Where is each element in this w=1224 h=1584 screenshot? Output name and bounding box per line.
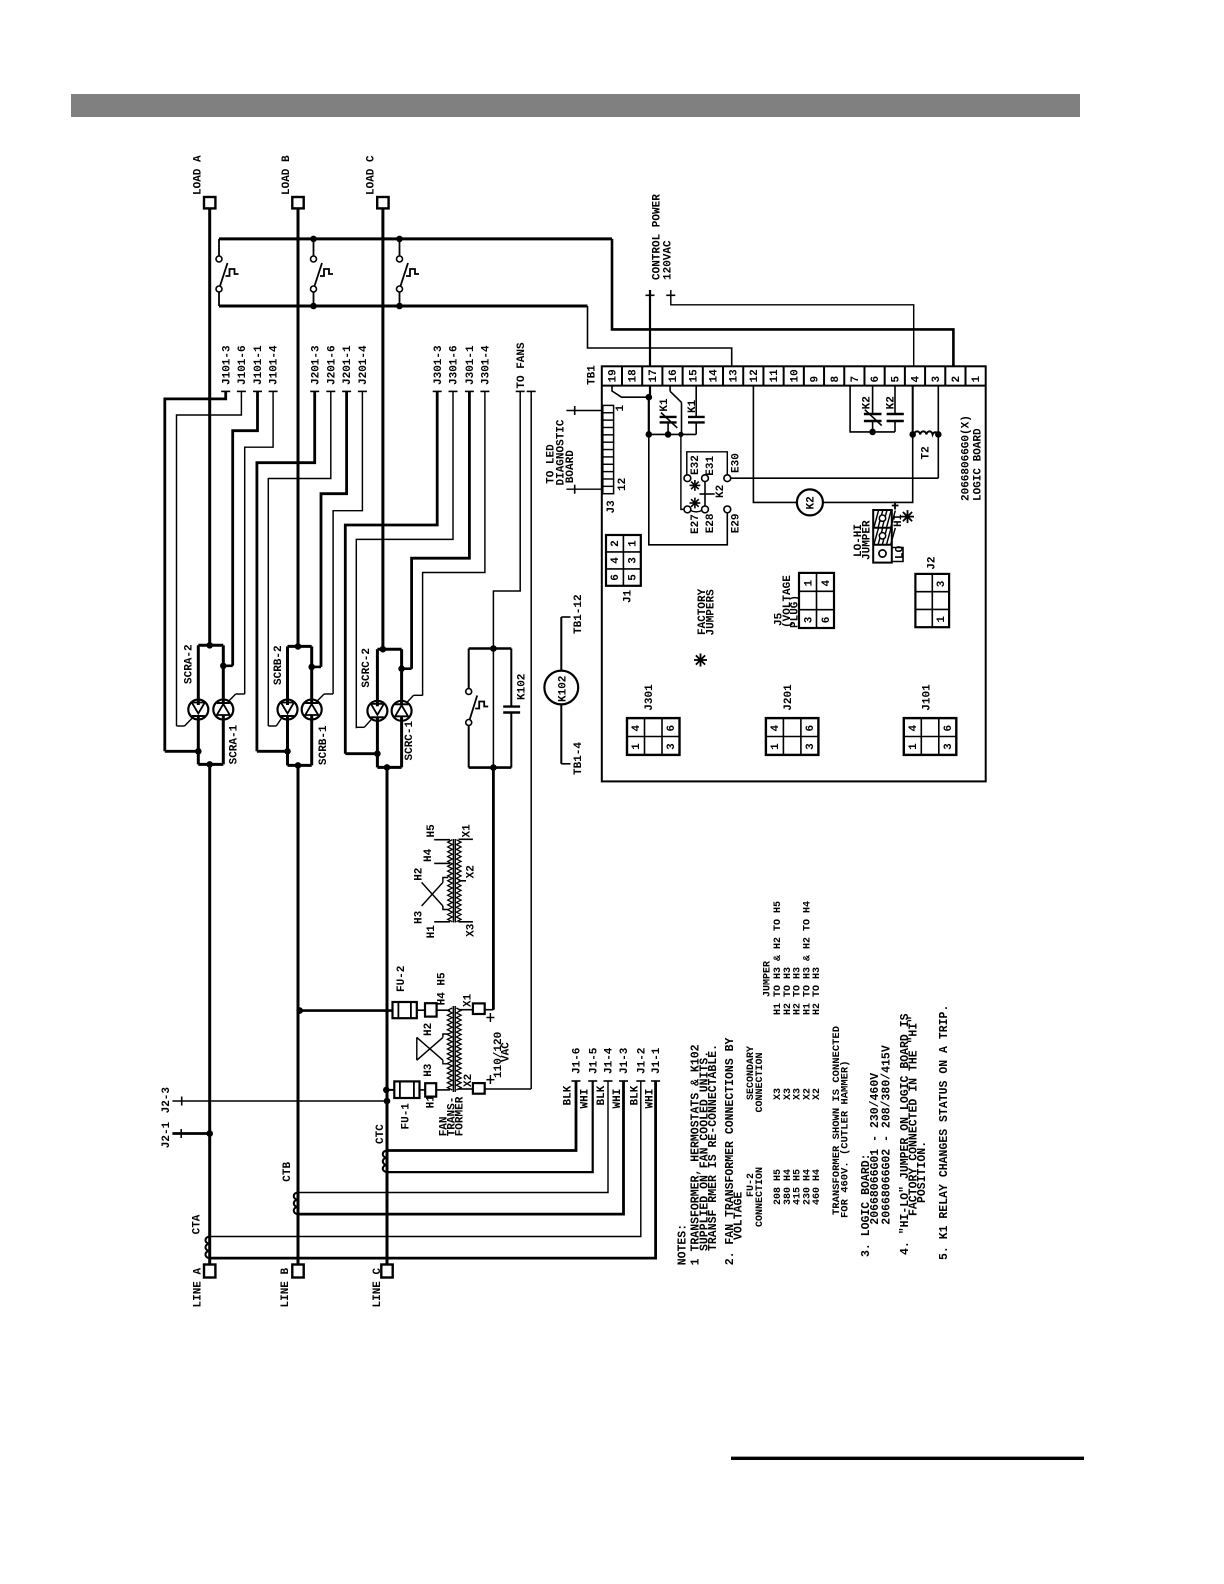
tap H5 upper xyxy=(434,839,450,841)
node SCRC anode junction xyxy=(380,646,387,653)
inductor T2 xyxy=(914,431,938,434)
svg-text:VAC: VAC xyxy=(501,1042,513,1062)
fan transformer core xyxy=(452,1006,454,1092)
svg-text:J301-3: J301-3 xyxy=(433,345,445,385)
svg-text:J1-1: J1-1 xyxy=(651,1047,663,1074)
wire J301-1 xyxy=(465,390,474,392)
svg-text:X3: X3 xyxy=(466,923,478,937)
wire phase B to FU-2 xyxy=(300,1009,393,1012)
terminal LINE A xyxy=(204,1265,215,1278)
svg-text:PLUG): PLUG) xyxy=(790,595,802,628)
svg-text:WHI: WHI xyxy=(645,1089,657,1109)
svg-text:E28: E28 xyxy=(705,513,717,533)
connector J5 voltage plug xyxy=(799,573,834,628)
label 110/120 VAC xyxy=(489,1013,491,1022)
fan transformer primary winding xyxy=(447,1008,452,1090)
fan transformer secondary winding xyxy=(456,1008,461,1090)
connector J3 xyxy=(603,405,614,493)
svg-text:J1-5: J1-5 xyxy=(588,1047,600,1074)
wire X2 to fans xyxy=(485,1088,532,1090)
svg-text:FU-2: FU-2 xyxy=(396,966,408,992)
svg-text:JUMPERS: JUMPERS xyxy=(706,589,718,636)
wire top bus to TB1-2 xyxy=(612,239,953,366)
svg-text:CONNECTION: CONNECTION xyxy=(755,1052,766,1112)
tap X2 upper xyxy=(459,880,467,882)
thermostat switch TH3 xyxy=(399,239,401,256)
svg-text:TB1-12: TB1-12 xyxy=(573,594,585,634)
svg-text:5: 5 xyxy=(890,376,902,383)
svg-text:JUMPER: JUMPER xyxy=(763,961,774,997)
svg-text:J101-3: J101-3 xyxy=(221,345,233,385)
svg-text:4: 4 xyxy=(610,557,622,564)
svg-text:13: 13 xyxy=(729,369,741,383)
label J1-3 xyxy=(619,1080,628,1082)
capacitor contact K2 xyxy=(894,386,896,414)
terminal LOAD C xyxy=(377,197,388,208)
wire SCRA bottom bus xyxy=(197,751,200,764)
svg-text:J201-4: J201-4 xyxy=(358,345,370,385)
wire J101-3 xyxy=(221,390,230,392)
node K1 mid xyxy=(646,431,653,438)
thermostat switch TH1 xyxy=(218,239,220,256)
connector J101 xyxy=(904,718,957,755)
thermostat switch TH2 xyxy=(313,239,315,256)
svg-text:4: 4 xyxy=(770,725,782,732)
svg-text:FORMER: FORMER xyxy=(454,1096,466,1136)
node E32 xyxy=(684,475,691,482)
thermostat contact of K102 xyxy=(468,649,470,689)
svg-text:E32: E32 xyxy=(690,455,702,475)
wire LOAD B main line xyxy=(297,208,300,646)
svg-text:CONNECTION: CONNECTION xyxy=(755,1167,766,1227)
wire CTA BLK to J1-2 xyxy=(210,1081,641,1237)
node K1 top xyxy=(646,394,653,401)
svg-text:SCRC-2: SCRC-2 xyxy=(361,648,373,688)
upper transformer secondary winding xyxy=(456,840,461,922)
tap X3 upper xyxy=(459,921,473,923)
wire bottom bus to TB1-13 xyxy=(588,306,732,366)
wire J301-4 xyxy=(480,390,489,392)
svg-text:K2: K2 xyxy=(715,485,727,498)
gate wire of SCRB-2 xyxy=(276,718,282,727)
label J1-1 xyxy=(651,1080,660,1082)
svg-text:H2: H2 xyxy=(423,1023,435,1036)
svg-text:8: 8 xyxy=(830,376,842,383)
svg-text:J101: J101 xyxy=(921,684,933,711)
wire SCRB top bus xyxy=(288,645,312,648)
tap H1 upper xyxy=(434,921,450,923)
wire J101-4 xyxy=(269,390,278,392)
svg-text:20668066G02 - 208/380/415V: 20668066G02 - 208/380/415V xyxy=(881,1045,894,1225)
gate wire of SCRC-1 xyxy=(407,695,414,702)
svg-text:6: 6 xyxy=(610,574,622,581)
svg-text:BLK: BLK xyxy=(596,1085,608,1105)
wire phase C to FU-1 xyxy=(386,1089,394,1091)
svg-text:J301: J301 xyxy=(644,684,656,711)
wire SCRA top bus xyxy=(198,644,223,647)
node SCRC-2 cathode junction xyxy=(374,750,381,757)
terminal LOAD A xyxy=(204,197,215,208)
svg-text:3: 3 xyxy=(936,580,948,587)
svg-text:TO FANS: TO FANS xyxy=(516,342,528,389)
wire K1 left drop xyxy=(648,397,650,434)
svg-text:5. K1 RELAY CHANGES STATUS ON: 5. K1 RELAY CHANGES STATUS ON A TRIP. xyxy=(938,1005,951,1260)
svg-text:X1: X1 xyxy=(462,824,474,838)
svg-text:18: 18 xyxy=(628,369,640,383)
svg-text:TB1: TB1 xyxy=(587,365,599,385)
connector J2 xyxy=(915,574,949,627)
wire J301-3 to SCRC cathode xyxy=(345,752,377,755)
svg-text:J1-4: J1-4 xyxy=(604,1047,616,1074)
svg-text:POSITION.: POSITION. xyxy=(916,1141,929,1203)
svg-text:K2: K2 xyxy=(861,396,873,409)
SCR SCRB-2 xyxy=(286,646,289,705)
node FU-1 tap xyxy=(383,1087,390,1094)
wire CTB BLK to J1-4 xyxy=(298,1081,608,1193)
wire J201-6 xyxy=(326,390,335,392)
factory jumper star 2 xyxy=(690,498,701,509)
gate wire of SCRA-2 xyxy=(185,718,193,727)
wire TO FANS 2 xyxy=(527,390,536,392)
svg-text:14: 14 xyxy=(709,369,721,383)
svg-text:1: 1 xyxy=(971,376,983,383)
wire K102 bus to fan transformer X1 xyxy=(492,649,494,768)
wire phase C lower main xyxy=(386,767,389,1264)
node phase A bottom xyxy=(206,761,213,768)
label J1-5 xyxy=(588,1080,597,1082)
gate wire of SCRB-1 xyxy=(317,694,324,701)
jumper arc E27-E28 xyxy=(691,511,702,512)
svg-text:3: 3 xyxy=(805,743,817,750)
svg-text:H3: H3 xyxy=(414,910,426,924)
node SCRB-2 cathode junction xyxy=(284,748,291,755)
jumper E31-E28 xyxy=(704,482,706,506)
svg-text:LINE B: LINE B xyxy=(280,1267,292,1307)
node J2-1 tap xyxy=(206,1130,213,1137)
wire K102 bottom bus xyxy=(469,766,512,769)
svg-text:1: 1 xyxy=(627,540,639,547)
svg-text:LINE C: LINE C xyxy=(372,1267,384,1307)
node bus-T2 bottom xyxy=(310,303,317,310)
svg-text:E27: E27 xyxy=(690,514,702,534)
H2-H3 crossover xyxy=(416,1037,418,1060)
capacitor contact K1 xyxy=(695,386,697,417)
connector J301 xyxy=(627,718,680,755)
wire J101-1 xyxy=(253,390,262,392)
terminal X1 xyxy=(459,1009,473,1011)
svg-text:6: 6 xyxy=(666,725,678,732)
wire TB1-19 to K1 node xyxy=(612,386,649,398)
H2-H3 crossover upper xyxy=(422,882,443,906)
svg-text:3: 3 xyxy=(931,376,943,383)
svg-text:SCRA-2: SCRA-2 xyxy=(184,644,196,684)
svg-text:J1-3: J1-3 xyxy=(619,1047,631,1074)
svg-text:E29: E29 xyxy=(730,513,742,533)
svg-text:H4 H5: H4 H5 xyxy=(437,972,449,1005)
wire SCRC bottom bus xyxy=(376,754,379,768)
svg-text:4: 4 xyxy=(821,580,833,587)
wire K1 bottom bar xyxy=(649,433,696,435)
svg-text:11: 11 xyxy=(769,369,781,383)
wire E27 riser xyxy=(681,434,684,509)
svg-text:K2: K2 xyxy=(806,496,818,509)
svg-text:FOR 460V. (CUTLER HAMMER): FOR 460V. (CUTLER HAMMER) xyxy=(840,1060,852,1218)
relay coil K2 xyxy=(797,489,823,515)
node E27 xyxy=(684,506,691,513)
svg-text:WHI: WHI xyxy=(612,1089,624,1109)
svg-text:VOLTAGE: VOLTAGE xyxy=(732,1192,745,1240)
svg-text:1: 1 xyxy=(803,580,815,587)
svg-text:X2: X2 xyxy=(812,1088,823,1100)
relay coil K102 xyxy=(544,671,578,705)
node T2 left xyxy=(909,431,916,438)
svg-text:J2-1: J2-1 xyxy=(161,1121,173,1148)
svg-text:1: 1 xyxy=(936,616,948,623)
wire SCRC top bus xyxy=(377,648,401,651)
svg-text:J2-3: J2-3 xyxy=(161,1087,173,1114)
wire J101-6 xyxy=(237,390,246,392)
svg-text:K102: K102 xyxy=(558,676,570,702)
wire LOAD A main line xyxy=(208,208,211,645)
svg-text:120VAC: 120VAC xyxy=(663,240,675,280)
label J1-4 xyxy=(604,1080,613,1082)
svg-text:LOGIC BOARD: LOGIC BOARD xyxy=(973,428,985,501)
SCR SCRC-2 xyxy=(376,649,379,706)
svg-text:J201: J201 xyxy=(783,684,795,711)
capacitor K102 xyxy=(510,649,512,707)
svg-text:15: 15 xyxy=(688,369,700,383)
wire to LED diagnostic board pin12 xyxy=(566,488,601,490)
svg-text:7: 7 xyxy=(850,376,862,383)
svg-text:J1-6: J1-6 xyxy=(572,1048,584,1074)
svg-text:6: 6 xyxy=(870,376,882,383)
svg-text:6: 6 xyxy=(821,617,833,624)
wire CTB WHI to J1-3 xyxy=(298,1081,624,1214)
terminal LINE B xyxy=(292,1265,303,1278)
svg-text:1: 1 xyxy=(908,743,920,750)
svg-text:X2: X2 xyxy=(466,865,478,878)
wire CTA WHI to J1-1 xyxy=(210,1081,656,1258)
wire T2 to K2 coil xyxy=(823,434,913,502)
svg-text:17: 17 xyxy=(648,369,660,382)
svg-text:E31: E31 xyxy=(705,455,717,475)
node FU-2 tap xyxy=(296,1007,303,1014)
svg-text:1: 1 xyxy=(615,405,627,412)
terminal LINE C xyxy=(381,1265,392,1278)
svg-text:J201-3: J201-3 xyxy=(310,345,322,385)
node K102 top xyxy=(490,645,497,652)
node SCRB-1 top branch xyxy=(308,664,315,671)
svg-text:T2: T2 xyxy=(921,446,933,459)
wire control power to TB1-4 xyxy=(671,290,914,366)
upper transformer core xyxy=(452,839,454,923)
terminal H1 xyxy=(420,1089,426,1091)
svg-text:E30: E30 xyxy=(730,453,742,473)
svg-text:J301-6: J301-6 xyxy=(449,345,461,385)
node E30 xyxy=(724,475,731,482)
svg-text:12: 12 xyxy=(617,478,629,491)
terminal LOAD B xyxy=(292,197,303,208)
wire E30 to T2 branch xyxy=(731,477,939,479)
node J2-3 tap xyxy=(384,1098,391,1105)
wire top thermostat bus xyxy=(219,237,612,240)
bottom rule line xyxy=(731,1457,1084,1460)
wire J301-3 xyxy=(433,390,442,392)
svg-text:1: 1 xyxy=(631,743,643,750)
node K2 contact bottom xyxy=(869,429,876,436)
wire TB1-4 into board xyxy=(912,386,914,435)
wire LOAD C main line xyxy=(381,208,384,649)
node SCRA-1 top branch xyxy=(220,663,227,670)
svg-text:4: 4 xyxy=(911,376,923,383)
svg-text:H3: H3 xyxy=(423,1063,435,1077)
node bus-T3 top xyxy=(396,236,403,243)
wire TB1-12 to K2 coil xyxy=(753,386,797,503)
current transformer CTB xyxy=(294,1192,298,1214)
wire J101-3 to SCRA cathode xyxy=(165,750,199,753)
terminal X2 xyxy=(459,1088,473,1090)
wire CTC WHI to J1-5 xyxy=(387,1081,593,1172)
svg-text:3: 3 xyxy=(627,557,639,564)
svg-text:H2 TO H3: H2 TO H3 xyxy=(812,967,823,1015)
svg-text:2: 2 xyxy=(610,540,622,547)
wire TB1-17 into board xyxy=(649,386,651,398)
node SCRC-1 top branch xyxy=(398,665,405,672)
svg-text:BOARD: BOARD xyxy=(565,450,577,483)
svg-text:H5: H5 xyxy=(426,824,438,838)
svg-text:FU-1: FU-1 xyxy=(401,1103,413,1130)
svg-text:16: 16 xyxy=(668,369,680,382)
svg-text:3: 3 xyxy=(803,616,815,623)
svg-text:K2: K2 xyxy=(885,396,897,409)
svg-text:H1: H1 xyxy=(426,1095,438,1109)
svg-text:K1: K1 xyxy=(659,398,671,412)
tap H4 upper xyxy=(434,862,450,864)
svg-text:J201-1: J201-1 xyxy=(342,345,354,385)
svg-text:3: 3 xyxy=(943,743,955,750)
node bus-T3 bottom xyxy=(396,303,403,310)
svg-text:12: 12 xyxy=(749,369,761,382)
svg-text:BLK: BLK xyxy=(563,1085,575,1105)
svg-text:1: 1 xyxy=(770,743,782,750)
node E29 xyxy=(724,506,731,513)
svg-text:LINE A: LINE A xyxy=(193,1267,205,1307)
svg-text:SCRB-1: SCRB-1 xyxy=(318,725,330,765)
gate wire of SCRA-1 xyxy=(229,694,236,701)
upper transformer primary winding xyxy=(448,840,453,922)
wire J2-1 xyxy=(172,1132,209,1135)
SCR SCRA-2 xyxy=(197,645,200,705)
svg-text:CTB: CTB xyxy=(282,1161,294,1181)
svg-text:H2: H2 xyxy=(414,868,426,881)
svg-text:460 H4: 460 H4 xyxy=(812,1169,823,1205)
gate wire of SCRC-2 xyxy=(364,719,372,728)
relay contact K2 (NC) xyxy=(872,386,874,414)
svg-text:H1: H1 xyxy=(426,925,438,939)
svg-text:TRANSF RMER IS RE-CONNECTABLE.: TRANSF RMER IS RE-CONNECTABLE. xyxy=(707,1044,720,1251)
svg-text:LOAD B: LOAD B xyxy=(281,155,293,195)
wire bottom thermostat bus xyxy=(219,305,588,308)
svg-text:9: 9 xyxy=(810,376,822,383)
connector J1 xyxy=(606,535,641,586)
svg-text:J2: J2 xyxy=(927,556,939,569)
svg-text:J1: J1 xyxy=(623,589,635,603)
svg-text:3: 3 xyxy=(666,743,678,750)
current transformer CTC xyxy=(383,1151,387,1173)
node SCRA anode junction xyxy=(206,642,213,649)
svg-text:SCRB-2: SCRB-2 xyxy=(273,645,285,685)
svg-text:J101-4: J101-4 xyxy=(269,345,281,385)
wire SCRB bottom bus xyxy=(286,751,289,765)
svg-text:J1-2: J1-2 xyxy=(636,1048,648,1074)
node bus-T2 top xyxy=(310,236,317,243)
SCR SCRC-1 xyxy=(400,649,403,704)
svg-text:J101-1: J101-1 xyxy=(253,345,265,385)
grey header bar xyxy=(71,94,1080,117)
svg-text:J3: J3 xyxy=(606,500,618,514)
wire K102 top bus xyxy=(469,647,512,650)
svg-text:6: 6 xyxy=(943,725,955,732)
svg-text:10: 10 xyxy=(789,369,801,382)
wire J201-1 xyxy=(342,390,351,392)
svg-text:J101-6: J101-6 xyxy=(237,345,249,385)
tap X1 upper xyxy=(459,838,473,840)
factory jumpers legend xyxy=(694,654,707,667)
node phase C bottom xyxy=(384,764,391,771)
LO-HI jumper block xyxy=(873,510,892,563)
wire TB1-7 bracket xyxy=(850,386,895,432)
wire K102 coil to TB1-12 xyxy=(560,617,562,671)
svg-text:NOTES:: NOTES: xyxy=(676,1224,689,1265)
svg-text:SCRA-1: SCRA-1 xyxy=(229,724,241,764)
svg-text:6: 6 xyxy=(805,725,817,732)
svg-text:X1: X1 xyxy=(463,993,475,1007)
svg-text:LOAD C: LOAD C xyxy=(366,155,378,195)
wire J201-3 xyxy=(310,390,319,392)
wire to LED diagnostic board pin1 xyxy=(566,410,601,412)
label J1-2 xyxy=(636,1080,645,1082)
node E31 xyxy=(702,475,709,482)
label J1-6 xyxy=(572,1080,581,1082)
svg-text:JUMPER: JUMPER xyxy=(862,520,874,560)
wire E32-E30 fence xyxy=(687,452,728,475)
logic board 20668066G0(X) xyxy=(602,366,986,781)
svg-text:H4: H4 xyxy=(423,848,435,862)
wire J2-3 xyxy=(172,1100,387,1102)
svg-text:J301-4: J301-4 xyxy=(481,345,493,385)
svg-text:SCRC-1: SCRC-1 xyxy=(404,720,416,760)
svg-text:K1: K1 xyxy=(687,399,699,413)
wire J201-3 to SCRB cathode xyxy=(257,750,288,753)
svg-text:CTC: CTC xyxy=(375,1124,387,1144)
node K102 bottom xyxy=(490,764,497,771)
node SCRB anode junction xyxy=(295,643,302,650)
relay contact K1 (NC) xyxy=(669,386,671,392)
wire K102 coil to TB1-4 xyxy=(560,704,562,763)
node E28 xyxy=(702,506,709,513)
svg-text:LOAD A: LOAD A xyxy=(193,155,205,195)
svg-text:J201-6: J201-6 xyxy=(326,345,338,385)
svg-text:19: 19 xyxy=(608,369,620,382)
node T2 right xyxy=(935,431,942,438)
node phase B bottom xyxy=(295,762,302,769)
svg-text:2: 2 xyxy=(951,376,963,383)
wire phase A lower main xyxy=(208,764,211,1264)
svg-text:WHI: WHI xyxy=(579,1089,591,1109)
factory jumper star HI xyxy=(901,510,914,523)
node SCRA-2 cathode junction xyxy=(195,748,202,755)
wire J301-6 xyxy=(449,390,458,392)
